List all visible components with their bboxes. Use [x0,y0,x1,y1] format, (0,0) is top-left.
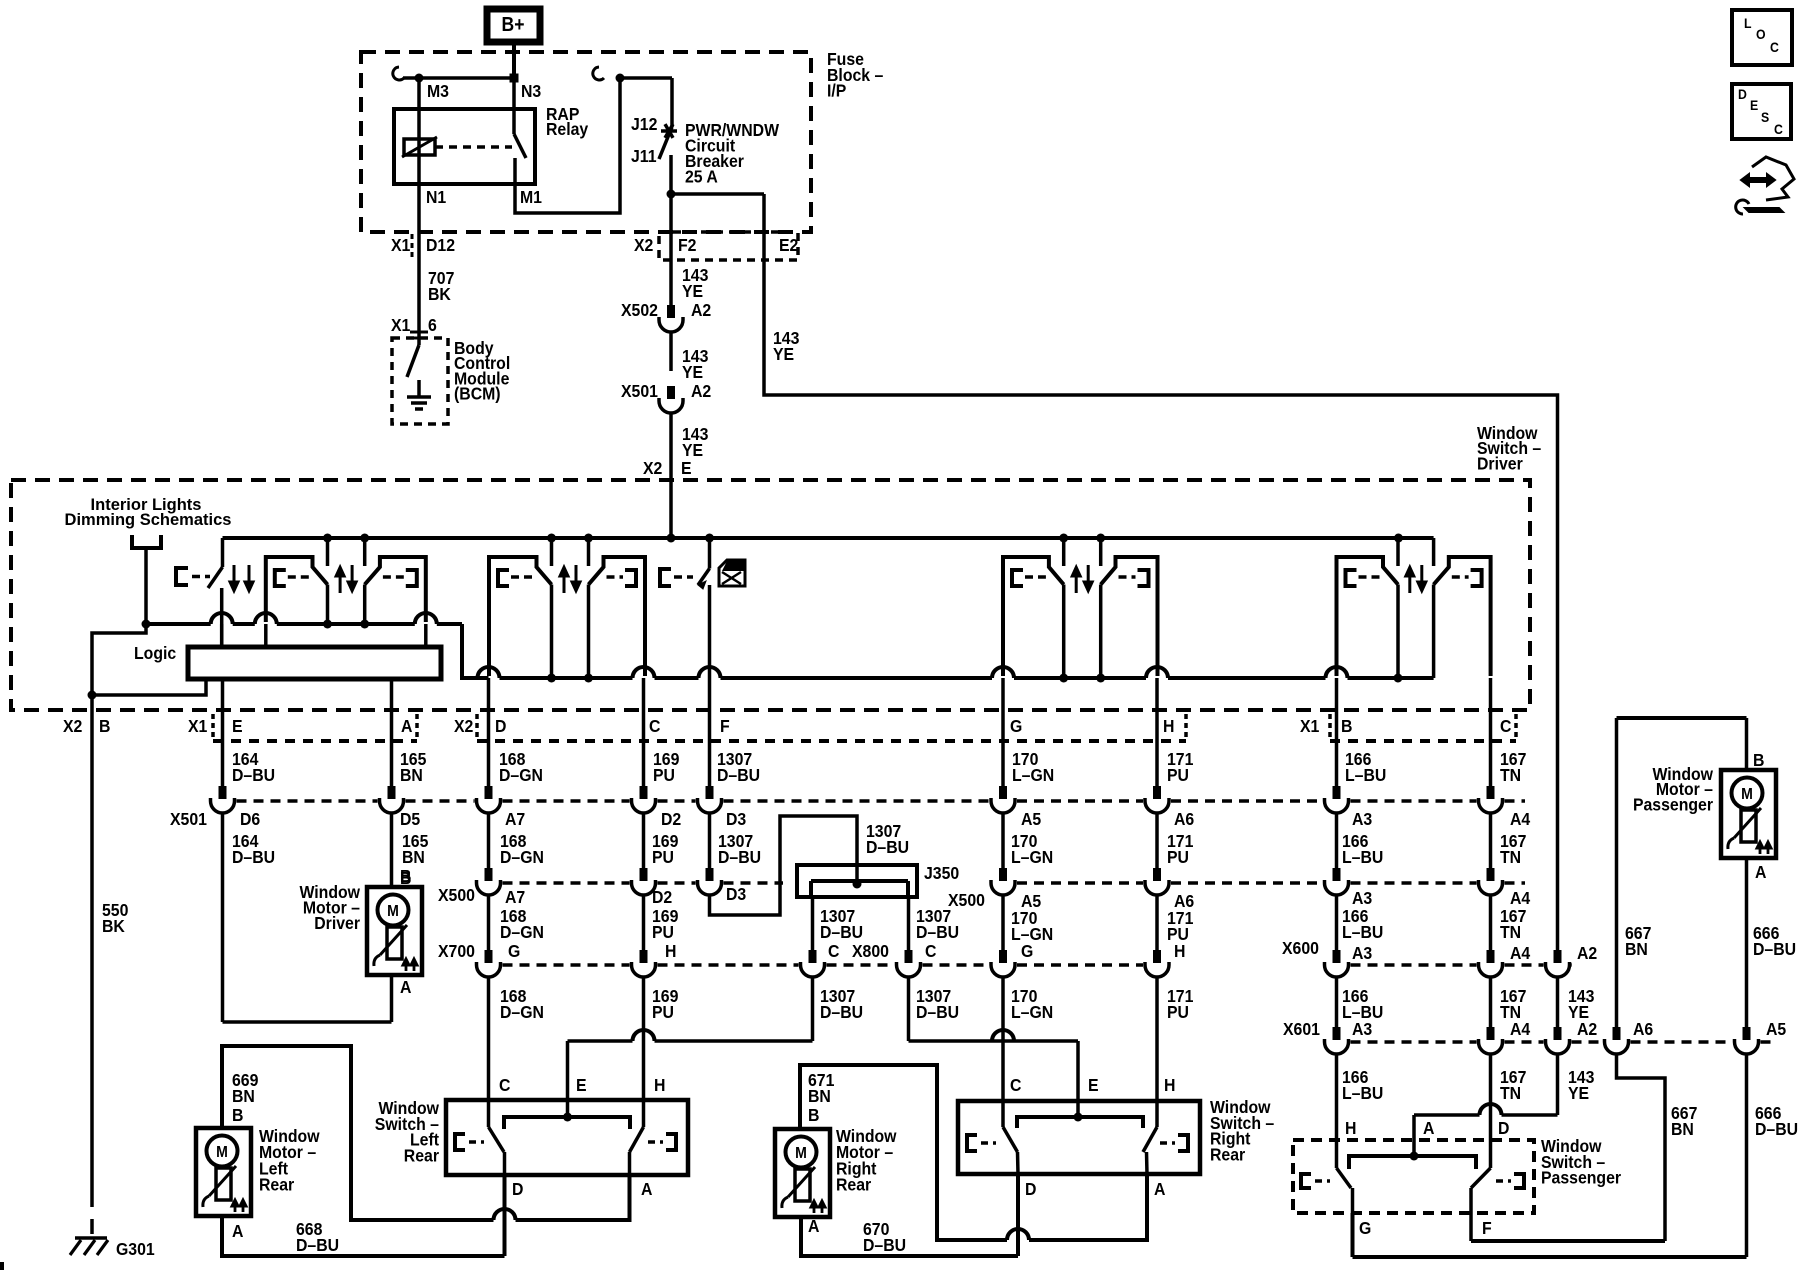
svg-text:X800: X800 [852,941,889,961]
svg-text:F: F [1482,1218,1492,1238]
svg-text:Passenger: Passenger [1541,1168,1621,1188]
svg-text:C: C [925,941,936,961]
svg-text:PU: PU [1167,765,1189,785]
svg-text:X502: X502 [621,300,658,320]
svg-text:H: H [1164,1075,1175,1095]
svg-text:I/P: I/P [827,81,846,101]
svg-text:A: A [232,1221,243,1241]
svg-text:D–BU: D–BU [232,765,275,785]
svg-text:H: H [1174,941,1185,961]
svg-text:B: B [808,1105,819,1125]
svg-text:BN: BN [1625,939,1648,959]
svg-text:A: A [1154,1179,1165,1199]
svg-text:D: D [1498,1118,1509,1138]
svg-text:A: A [1755,862,1766,882]
svg-text:X501: X501 [621,381,658,401]
svg-text:C: C [1500,716,1511,736]
svg-text:H: H [1345,1118,1356,1138]
svg-text:X601: X601 [1283,1019,1320,1039]
svg-text:B: B [99,716,110,736]
svg-text:G: G [1359,1218,1371,1238]
svg-text:E: E [681,458,692,478]
svg-text:O: O [1756,26,1766,42]
svg-text:D–BU: D–BU [863,1235,906,1255]
svg-text:M: M [1741,785,1753,803]
svg-text:Passenger: Passenger [1633,794,1713,814]
svg-text:TN: TN [1500,1083,1521,1103]
svg-text:D–GN: D–GN [500,922,544,942]
svg-text:YE: YE [773,344,794,364]
svg-text:D2: D2 [652,887,672,907]
svg-text:D: D [495,716,506,736]
svg-text:BN: BN [232,1086,255,1106]
svg-text:D3: D3 [726,809,746,829]
svg-text:A: A [1423,1118,1434,1138]
svg-text:Rear: Rear [1210,1144,1246,1164]
svg-text:L–GN: L–GN [1011,1002,1053,1022]
svg-text:D–BU: D–BU [717,765,760,785]
svg-text:A6: A6 [1633,1019,1653,1039]
svg-text:H: H [665,941,676,961]
svg-text:D–BU: D–BU [866,837,909,857]
svg-text:B: B [1341,716,1352,736]
svg-text:M1: M1 [520,187,542,207]
svg-text:D: D [1738,86,1747,102]
svg-text:D3: D3 [726,884,746,904]
svg-text:L–GN: L–GN [1012,765,1054,785]
svg-text:BK: BK [428,284,452,304]
svg-text:PU: PU [652,847,674,867]
svg-text:L: L [1744,15,1752,31]
svg-text:X2: X2 [634,235,653,255]
svg-text:G: G [1010,716,1022,736]
svg-text:A: A [401,716,412,736]
svg-text:A7: A7 [505,887,525,907]
svg-text:YE: YE [682,440,703,460]
svg-text:B: B [400,868,411,888]
svg-text:Rear: Rear [259,1175,295,1195]
svg-text:Rear: Rear [836,1175,872,1195]
svg-text:YE: YE [682,281,703,301]
svg-text:D–BU: D–BU [916,1002,959,1022]
svg-text:X600: X600 [1282,938,1319,958]
svg-text:A2: A2 [691,381,711,401]
svg-text:N1: N1 [426,187,446,207]
svg-text:X1: X1 [1300,716,1319,736]
svg-text:M: M [795,1144,807,1162]
svg-text:A5: A5 [1021,809,1041,829]
svg-text:A2: A2 [1577,943,1597,963]
svg-text:D12: D12 [426,235,455,255]
svg-text:D6: D6 [240,809,260,829]
svg-text:J11: J11 [631,146,657,166]
svg-text:C: C [1770,39,1779,55]
svg-text:E: E [1750,97,1758,113]
svg-text:D: D [1025,1179,1036,1199]
svg-text:L–BU: L–BU [1342,922,1383,942]
svg-text:Logic: Logic [134,643,176,663]
svg-text:X1: X1 [391,235,410,255]
svg-text:B: B [1753,750,1764,770]
svg-text:D–BU: D–BU [916,922,959,942]
svg-text:Driver: Driver [1477,453,1523,473]
svg-text:D: D [512,1179,523,1199]
svg-text:D–GN: D–GN [499,765,543,785]
svg-text:Driver: Driver [314,913,360,933]
svg-text:PU: PU [1167,847,1189,867]
svg-text:A4: A4 [1510,943,1531,963]
svg-text:J12: J12 [631,114,657,134]
svg-text:A4: A4 [1510,1019,1531,1039]
svg-text:A7: A7 [505,809,525,829]
svg-text:M3: M3 [427,81,449,101]
svg-text:TN: TN [1500,922,1521,942]
svg-text:(BCM): (BCM) [454,384,501,404]
svg-text:E2: E2 [779,235,798,255]
svg-text:G301: G301 [116,1239,155,1259]
svg-text:L–GN: L–GN [1011,847,1053,867]
svg-text:A3: A3 [1352,809,1372,829]
svg-text:L–BU: L–BU [1342,847,1383,867]
svg-text:X1: X1 [188,716,207,736]
svg-text:C: C [1010,1075,1021,1095]
svg-text:A6: A6 [1174,809,1194,829]
svg-text:BN: BN [402,847,425,867]
svg-text:A3: A3 [1352,1019,1372,1039]
svg-text:A4: A4 [1510,809,1531,829]
svg-text:X1: X1 [391,315,410,335]
svg-text:N3: N3 [521,81,541,101]
svg-text:X2: X2 [454,716,473,736]
svg-text:PU: PU [1167,1002,1189,1022]
svg-text:D–BU: D–BU [820,1002,863,1022]
svg-text:X500: X500 [948,890,985,910]
svg-text:BN: BN [808,1086,831,1106]
svg-text:F: F [720,716,730,736]
svg-text:TN: TN [1500,765,1521,785]
svg-text:BN: BN [1671,1119,1694,1139]
svg-text:D–BU: D–BU [718,847,761,867]
svg-text:D–BU: D–BU [232,847,275,867]
svg-text:PU: PU [653,765,675,785]
svg-text:A: A [641,1179,652,1199]
svg-text:PU: PU [652,922,674,942]
svg-text:D–BU: D–BU [1753,939,1796,959]
svg-text:D–BU: D–BU [820,922,863,942]
svg-text:A5: A5 [1766,1019,1786,1039]
svg-text:6: 6 [428,315,437,335]
svg-text:YE: YE [682,362,703,382]
svg-text:D–GN: D–GN [500,847,544,867]
svg-text:A2: A2 [691,300,711,320]
svg-text:B+: B+ [502,13,525,35]
svg-text:X501: X501 [170,809,207,829]
svg-text:C: C [499,1075,510,1095]
svg-text:B: B [232,1105,243,1125]
svg-text:H: H [1163,716,1174,736]
svg-text:H: H [654,1075,665,1095]
svg-text:25 A: 25 A [685,167,718,187]
svg-text:A2: A2 [1577,1019,1597,1039]
svg-text:F2: F2 [678,235,696,255]
svg-text:L–BU: L–BU [1342,1083,1383,1103]
svg-text:PU: PU [652,1002,674,1022]
svg-text:X700: X700 [438,941,475,961]
svg-text:L–BU: L–BU [1345,765,1386,785]
svg-text:G: G [1021,941,1033,961]
svg-text:BN: BN [400,765,423,785]
svg-text:Rear: Rear [404,1145,440,1165]
svg-text:M: M [387,902,399,920]
svg-text:YE: YE [1568,1083,1589,1103]
svg-text:D–GN: D–GN [500,1002,544,1022]
svg-text:C: C [1774,121,1783,137]
svg-text:E: E [576,1075,587,1095]
svg-text:E: E [1088,1075,1099,1095]
svg-text:A3: A3 [1352,943,1372,963]
svg-text:X2: X2 [643,458,662,478]
svg-text:D5: D5 [400,809,420,829]
svg-text:M: M [216,1143,228,1161]
svg-text:S: S [1761,109,1769,125]
svg-text:BK: BK [102,916,126,936]
svg-text:C: C [828,941,839,961]
svg-text:E: E [232,716,243,736]
svg-text:D–BU: D–BU [296,1235,339,1255]
svg-text:G: G [508,941,520,961]
svg-text:X2: X2 [63,716,82,736]
svg-text:J350: J350 [924,863,959,883]
svg-text:Dimming Schematics: Dimming Schematics [65,511,232,529]
svg-text:D–BU: D–BU [1755,1119,1798,1139]
svg-text:A: A [400,977,411,997]
svg-text:X500: X500 [438,885,475,905]
svg-text:TN: TN [1500,847,1521,867]
svg-text:Relay: Relay [546,119,589,139]
svg-text:D2: D2 [661,809,681,829]
svg-text:C: C [649,716,660,736]
